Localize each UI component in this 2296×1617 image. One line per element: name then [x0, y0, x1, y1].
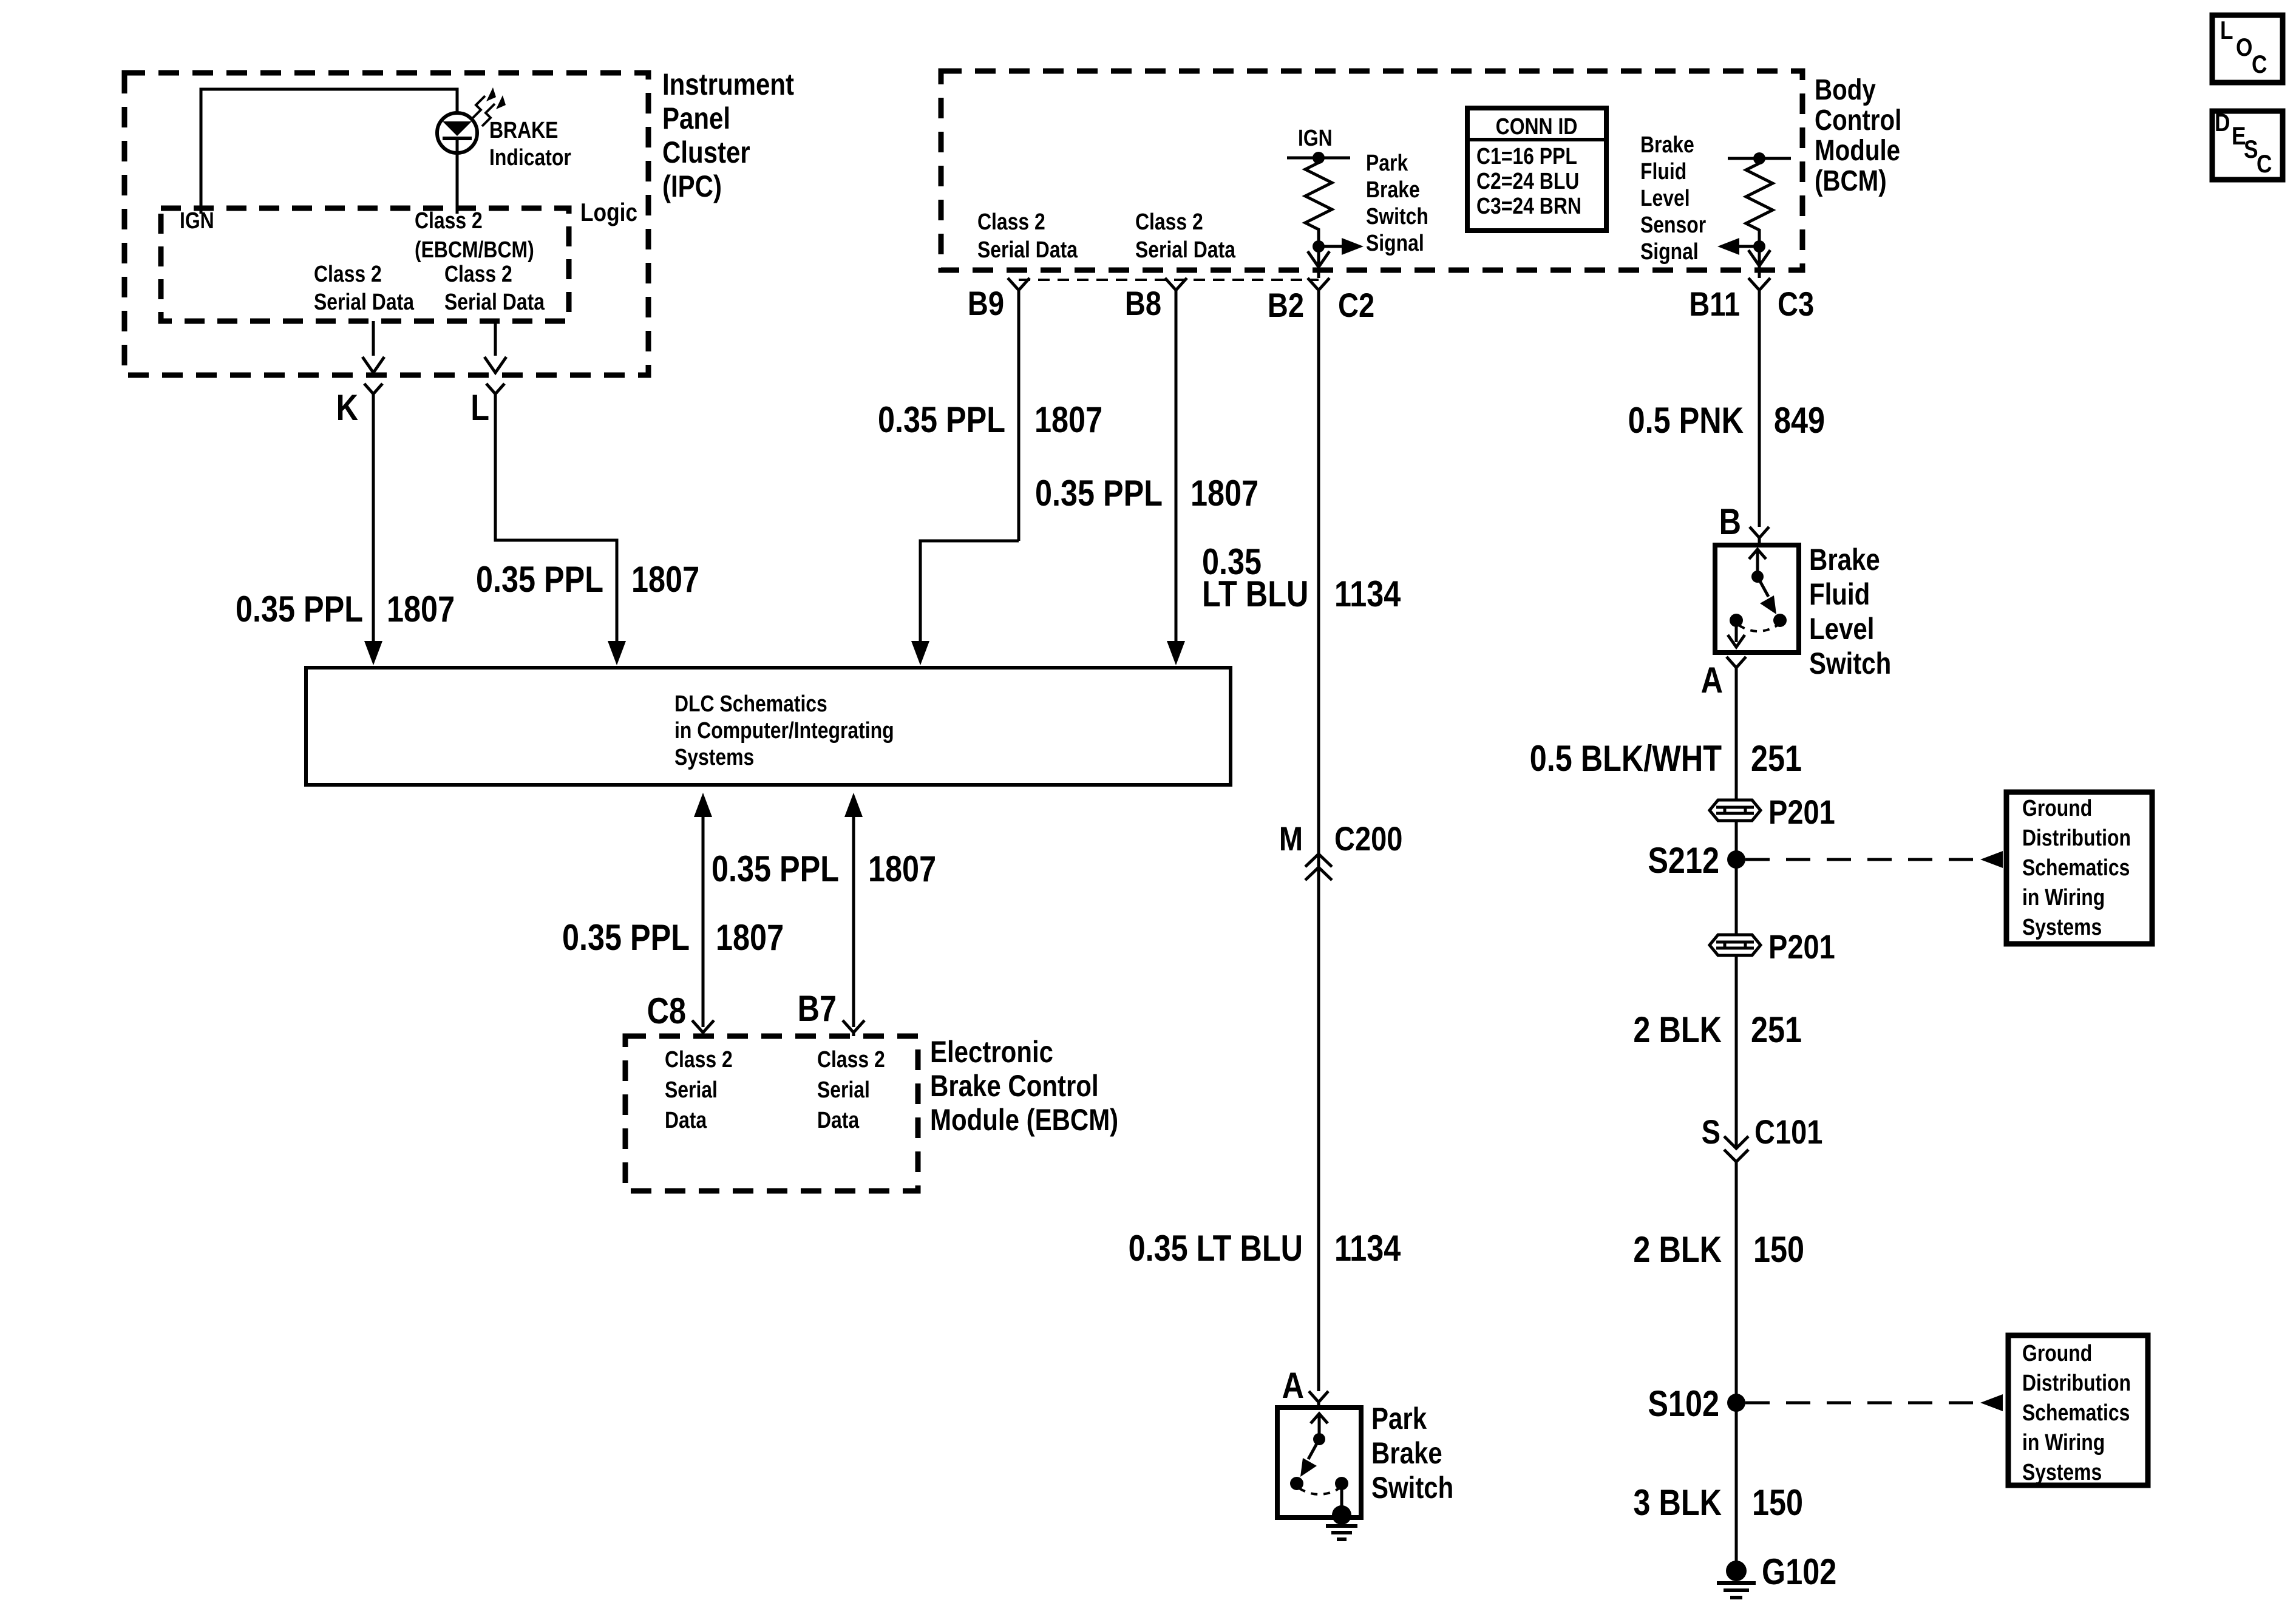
svg-text:O: O — [2236, 33, 2252, 62]
svg-text:C2=24 BLU: C2=24 BLU — [1476, 168, 1579, 194]
svg-text:(BCM): (BCM) — [1815, 165, 1887, 197]
arrow: park brake switch signal tap — [1319, 238, 1364, 255]
label: Instrument Panel Cluster (IPC) — [662, 67, 794, 203]
svg-text:Distribution: Distribution — [2022, 825, 2131, 850]
node: junction dot below resistor — [1313, 240, 1325, 253]
connector Y at B9 — [1008, 278, 1030, 541]
label: L — [470, 387, 489, 428]
pin label: IGN (IPC logic) — [180, 208, 214, 233]
svg-text:Switch: Switch — [1371, 1471, 1453, 1505]
wire label: 0.35 PPL 1807 (B9 wire) — [878, 399, 1102, 440]
LOC letters — [2220, 16, 2267, 79]
labels: S and C101 — [1702, 1113, 1823, 1151]
brake fluid level switch internals — [1728, 549, 1787, 647]
svg-text:Park: Park — [1366, 150, 1408, 175]
arrowhead K into DLC — [364, 641, 382, 665]
svg-text:Data: Data — [665, 1107, 707, 1133]
table text: CONN ID C1=16 PPL C2=24 BLU C3=24 BRN — [1476, 114, 1581, 219]
module box: Body Control Module (BCM) — [941, 71, 1802, 270]
label: C8 — [647, 991, 686, 1031]
svg-text:S212: S212 — [1648, 840, 1719, 881]
svg-text:0.35 PPL: 0.35 PPL — [1035, 473, 1163, 514]
reference box: Ground Distribution Schematics in Wiring Systems (upper) — [2006, 792, 2152, 944]
svg-text:Park: Park — [1371, 1402, 1427, 1436]
svg-text:S: S — [2244, 135, 2258, 164]
label: K — [336, 387, 358, 428]
label: G102 — [1762, 1551, 1836, 1592]
svg-text:251: 251 — [1751, 738, 1802, 779]
label: Body Control Module (BCM) — [1815, 74, 1901, 197]
wire label: 0.35 PPL 1807 (L wire) — [476, 559, 699, 600]
label: Brake Fluid Level Sensor Signal — [1640, 132, 1706, 264]
arrowhead B9 wire into DLC — [911, 641, 929, 665]
svg-text:1134: 1134 — [1334, 574, 1401, 614]
svg-text:0.35 PPL: 0.35 PPL — [878, 399, 1005, 440]
DESC reference box — [2212, 111, 2283, 180]
label: P201 (upper) — [1768, 793, 1835, 831]
pin label: Class 2 (EBCM/BCM) — [415, 208, 534, 262]
svg-text:Class 2: Class 2 — [665, 1046, 733, 1072]
svg-text:C: C — [2252, 50, 2267, 79]
svg-text:B7: B7 — [798, 988, 837, 1029]
svg-text:B8: B8 — [1125, 284, 1161, 322]
label: S102 — [1648, 1383, 1719, 1424]
svg-text:Class 2: Class 2 — [977, 209, 1045, 234]
svg-text:Module: Module — [1815, 135, 1900, 167]
resistor: park brake switch pull-up — [1305, 158, 1332, 246]
park brake switch internals — [1290, 1414, 1348, 1506]
svg-text:Systems: Systems — [2022, 914, 2102, 940]
svg-text:Control: Control — [1815, 104, 1901, 137]
inline connector S / C101 — [1724, 1136, 1748, 1571]
svg-text:0.35 PPL: 0.35 PPL — [476, 559, 603, 600]
svg-text:1807: 1807 — [631, 559, 699, 600]
pin label: Class 2 Serial Data (right) — [444, 261, 545, 314]
label: A (park brake switch pin) — [1282, 1365, 1304, 1406]
svg-text:1807: 1807 — [387, 589, 455, 629]
svg-text:Signal: Signal — [1640, 239, 1699, 264]
svg-text:P201: P201 — [1768, 793, 1835, 831]
connector Y at B7 — [843, 1020, 864, 1036]
arrowhead: reference arrow to ground distribution (lower) — [1980, 1394, 2003, 1411]
svg-text:B11: B11 — [1689, 285, 1740, 323]
svg-text:Body: Body — [1815, 74, 1876, 106]
wire: L serial data out of IPC — [484, 321, 506, 373]
svg-text:G102: G102 — [1762, 1551, 1836, 1592]
svg-text:B: B — [1719, 501, 1741, 542]
svg-text:Schematics: Schematics — [2022, 855, 2130, 880]
component box: Park Brake Switch — [1277, 1408, 1361, 1517]
wire: LED down to Logic box — [456, 153, 459, 214]
svg-text:(IPC): (IPC) — [662, 169, 722, 203]
svg-text:Brake: Brake — [1366, 177, 1420, 202]
svg-text:L: L — [470, 387, 489, 428]
svg-text:1807: 1807 — [1034, 399, 1102, 440]
labels: M and C200 — [1279, 819, 1403, 858]
DESC letters — [2215, 109, 2272, 178]
label: BRAKE Indicator — [489, 117, 571, 170]
label: Brake Fluid Level Switch — [1809, 543, 1891, 680]
label: DLC Schematics in Computer/Integrating Systems — [674, 691, 894, 770]
wire: B2 output with open arrowhead — [1308, 246, 1330, 278]
svg-text:P201: P201 — [1768, 927, 1835, 966]
svg-text:0.35 LT BLU: 0.35 LT BLU — [1129, 1228, 1303, 1269]
svg-text:Class 2: Class 2 — [444, 261, 512, 286]
node: junction dot below BFL resistor — [1753, 240, 1765, 253]
box: DLC Schematics — [306, 668, 1231, 785]
svg-text:Level: Level — [1809, 612, 1874, 646]
wire label: 0.35 LT BLU 1134 (lower) — [1129, 1228, 1401, 1269]
module box: Instrument Panel Cluster (IPC) — [124, 73, 648, 375]
svg-text:L: L — [2220, 16, 2233, 45]
pin label: Class 2 Serial Data (left) — [314, 261, 414, 314]
svg-text:0.35 PPL: 0.35 PPL — [712, 849, 839, 889]
logic block box inside IPC — [161, 208, 569, 321]
svg-text:C101: C101 — [1754, 1113, 1822, 1151]
svg-text:in Computer/Integrating: in Computer/Integrating — [674, 717, 894, 743]
svg-text:Serial: Serial — [817, 1077, 870, 1102]
svg-text:C200: C200 — [1334, 819, 1402, 858]
svg-text:Serial Data: Serial Data — [444, 289, 545, 314]
node: splice S102 — [1727, 1394, 1745, 1412]
svg-text:in Wiring: in Wiring — [2022, 884, 2105, 910]
svg-text:B2: B2 — [1268, 286, 1304, 324]
svg-text:Electronic: Electronic — [930, 1035, 1053, 1069]
svg-text:0.5 BLK/WHT: 0.5 BLK/WHT — [1530, 738, 1722, 779]
LED: BRAKE indicator — [437, 113, 477, 153]
wire label: 0.35 PPL 1807 (K wire) — [236, 589, 455, 629]
svg-text:Distribution: Distribution — [2022, 1370, 2131, 1395]
svg-text:Brake: Brake — [1809, 543, 1880, 577]
svg-text:Class 2: Class 2 — [817, 1046, 885, 1072]
svg-text:IGN: IGN — [1298, 125, 1333, 151]
svg-text:A: A — [1701, 660, 1723, 700]
wire label: 3 BLK 150 — [1633, 1482, 1803, 1523]
label: Electronic Brake Control Module (EBCM) — [930, 1035, 1118, 1137]
wire label: 0.5 PNK 849 — [1628, 400, 1825, 441]
svg-text:C1=16 PPL: C1=16 PPL — [1476, 143, 1577, 169]
svg-text:1807: 1807 — [868, 849, 936, 889]
wire label: 0.35 LT BLU 1134 (upper, two-line) — [1202, 541, 1401, 614]
ground: park brake switch case ground — [1326, 1505, 1357, 1539]
connector Y at L — [486, 384, 617, 642]
arrowhead B7 wire into DLC — [844, 793, 863, 817]
svg-text:Ground: Ground — [2022, 795, 2092, 821]
svg-text:Serial Data: Serial Data — [314, 289, 414, 314]
pin label: Class 2 Serial Data (BCM mid) — [1135, 209, 1235, 262]
wire: K serial data out of IPC — [362, 321, 384, 373]
label: B (brake fluid level switch pin) — [1719, 501, 1741, 542]
inline connector M / C200 — [1305, 854, 1332, 880]
inline connector P201 (upper) — [1710, 800, 1761, 821]
connector Y at B2/C2 — [1308, 278, 1330, 1391]
wire: B11 output with open arrowhead — [1748, 246, 1770, 278]
svg-text:Panel: Panel — [662, 101, 730, 135]
connector Y at B11/C3 — [1748, 278, 1770, 527]
svg-text:Sensor: Sensor — [1640, 212, 1706, 237]
svg-text:S102: S102 — [1648, 1383, 1719, 1424]
wire: B7 up to DLC — [852, 816, 855, 1027]
wire label: 0.35 PPL 1807 (B7 wire) — [712, 849, 936, 889]
svg-text:in Wiring: in Wiring — [2022, 1429, 2105, 1455]
reference box: Ground Distribution Schematics in Wiring Systems (lower) — [2008, 1335, 2148, 1485]
arrowhead C8 wire into DLC — [694, 793, 712, 817]
svg-text:Module (EBCM): Module (EBCM) — [930, 1103, 1118, 1137]
dashed reference line from S102 — [1745, 1402, 1979, 1405]
table: CONN ID — [1467, 108, 1606, 231]
svg-text:M: M — [1279, 819, 1303, 858]
svg-text:IGN: IGN — [180, 208, 214, 233]
arrowhead L into DLC — [608, 641, 626, 665]
svg-text:(EBCM/BCM): (EBCM/BCM) — [415, 237, 534, 262]
svg-text:Fluid: Fluid — [1809, 577, 1870, 611]
wire: P201 to C101 — [1735, 955, 1738, 1147]
svg-text:D: D — [2215, 109, 2230, 137]
svg-text:849: 849 — [1774, 400, 1825, 441]
connector Y at B8 — [1165, 278, 1187, 642]
thin dashed connector line B9-B2 — [1019, 279, 1319, 281]
label: B9 — [968, 284, 1004, 322]
wire: IGN to BRAKE indicator (up and over) — [201, 89, 457, 214]
wire label: 0.35 PPL 1807 (B8 wire) — [1035, 473, 1258, 514]
svg-text:Logic: Logic — [580, 198, 637, 227]
svg-text:Serial Data: Serial Data — [1135, 237, 1235, 262]
svg-text:0.35 PPL: 0.35 PPL — [236, 589, 363, 629]
svg-text:Class 2: Class 2 — [1135, 209, 1203, 234]
label: Park Brake Switch — [1371, 1402, 1453, 1505]
labels: B2 and C2 — [1268, 286, 1374, 324]
LED light rays (lightning arrows) — [472, 87, 506, 126]
connector Y at park brake switch pin A — [1309, 1391, 1328, 1408]
wire: B9 step-over to DLC — [920, 541, 1019, 642]
svg-text:2 BLK: 2 BLK — [1633, 1229, 1722, 1270]
svg-text:C2: C2 — [1338, 286, 1374, 324]
text: ground distribution reference (upper) — [2022, 795, 2131, 940]
svg-text:Serial Data: Serial Data — [977, 237, 1078, 262]
svg-text:1134: 1134 — [1334, 1228, 1401, 1269]
arrowhead B8 wire into DLC — [1167, 641, 1185, 665]
label: S212 — [1648, 840, 1719, 881]
svg-text:3 BLK: 3 BLK — [1633, 1482, 1722, 1523]
svg-text:Signal: Signal — [1366, 230, 1424, 256]
svg-text:Fluid: Fluid — [1640, 158, 1686, 184]
svg-text:150: 150 — [1752, 1482, 1803, 1523]
svg-text:2 BLK: 2 BLK — [1633, 1009, 1722, 1050]
svg-text:Indicator: Indicator — [489, 144, 571, 170]
svg-text:1807: 1807 — [716, 917, 784, 958]
svg-text:C: C — [2257, 150, 2272, 178]
wire label: 2 BLK 251 — [1633, 1009, 1802, 1050]
svg-text:Class 2: Class 2 — [314, 261, 382, 286]
label: A (BFL switch pin) — [1701, 660, 1723, 700]
svg-text:BRAKE: BRAKE — [489, 117, 558, 143]
wire label: 0.5 BLK/WHT 251 — [1530, 738, 1802, 779]
svg-text:C3: C3 — [1778, 285, 1814, 323]
node: IGN rail with junction dot — [1287, 152, 1350, 164]
wire: P201 to S212 — [1735, 821, 1738, 935]
svg-text:Systems: Systems — [2022, 1459, 2102, 1485]
svg-text:B9: B9 — [968, 284, 1004, 322]
svg-text:S: S — [1702, 1113, 1720, 1151]
label: Park Brake Switch Signal — [1366, 150, 1428, 256]
svg-text:LT BLU: LT BLU — [1202, 574, 1308, 614]
wire label: 0.35 PPL 1807 (C8 wire) — [562, 917, 784, 958]
arrowhead: reference arrow to ground distribution (upper) — [1980, 851, 2003, 868]
resistor: brake fluid level sensor pull-up — [1746, 158, 1773, 246]
connector Y at BFL switch pin B — [1750, 527, 1769, 545]
wire label: 2 BLK 150 — [1633, 1229, 1804, 1270]
label: IGN (BCM) — [1298, 125, 1333, 151]
connector Y at C8 — [692, 1020, 714, 1036]
svg-text:150: 150 — [1753, 1229, 1804, 1270]
inline connector P201 (lower) — [1710, 935, 1761, 955]
label: Logic — [580, 198, 637, 227]
svg-text:1807: 1807 — [1190, 473, 1258, 514]
labels: B11 and C3 — [1689, 285, 1814, 323]
svg-text:A: A — [1282, 1365, 1304, 1406]
label: P201 (lower) — [1768, 927, 1835, 966]
module box: Electronic Brake Control Module (EBCM) — [625, 1036, 918, 1191]
svg-text:Switch: Switch — [1809, 646, 1891, 680]
ground: G102 — [1717, 1561, 1756, 1598]
svg-text:0.35 PPL: 0.35 PPL — [562, 917, 690, 958]
svg-text:Brake: Brake — [1371, 1436, 1442, 1470]
dashed reference line from S212 — [1745, 858, 1979, 861]
connector Y at BFL switch pin A — [1727, 657, 1746, 800]
svg-text:Level: Level — [1640, 185, 1690, 211]
svg-text:C3=24 BRN: C3=24 BRN — [1476, 193, 1581, 219]
svg-text:0.5 PNK: 0.5 PNK — [1628, 400, 1744, 441]
pin label: Class 2 Serial Data (BCM left) — [977, 209, 1078, 262]
svg-text:Data: Data — [817, 1107, 860, 1133]
svg-text:Class 2: Class 2 — [415, 208, 483, 233]
pin label: Class 2 Serial Data (EBCM right) — [817, 1046, 885, 1133]
svg-text:Instrument: Instrument — [662, 67, 794, 101]
svg-text:Brake Control: Brake Control — [930, 1069, 1099, 1103]
node: BFL sensor rail with junction dot — [1728, 152, 1791, 164]
node: splice S212 — [1727, 850, 1745, 869]
label: B8 — [1125, 284, 1161, 322]
svg-text:Switch: Switch — [1366, 203, 1428, 229]
component box: Brake Fluid Level Switch — [1715, 545, 1799, 653]
svg-text:Brake: Brake — [1640, 132, 1694, 157]
svg-text:Serial: Serial — [665, 1077, 718, 1102]
svg-text:Cluster: Cluster — [662, 135, 750, 169]
svg-text:Ground: Ground — [2022, 1340, 2092, 1366]
connector Y at K — [364, 384, 382, 642]
text: ground distribution reference (lower) — [2022, 1340, 2131, 1485]
LOC reference box — [2212, 15, 2283, 83]
svg-text:251: 251 — [1751, 1009, 1802, 1050]
label: B7 — [798, 988, 837, 1029]
wire: C8 up to DLC — [702, 816, 705, 1027]
svg-text:Systems: Systems — [674, 744, 754, 770]
svg-text:Schematics: Schematics — [2022, 1400, 2130, 1425]
svg-text:CONN ID: CONN ID — [1496, 114, 1578, 139]
pin label: Class 2 Serial Data (EBCM left) — [665, 1046, 733, 1133]
arrow: brake fluid level sensor signal tap (points left) — [1717, 238, 1759, 255]
svg-text:DLC Schematics: DLC Schematics — [674, 691, 827, 716]
svg-text:K: K — [336, 387, 358, 428]
svg-text:C8: C8 — [647, 991, 686, 1031]
